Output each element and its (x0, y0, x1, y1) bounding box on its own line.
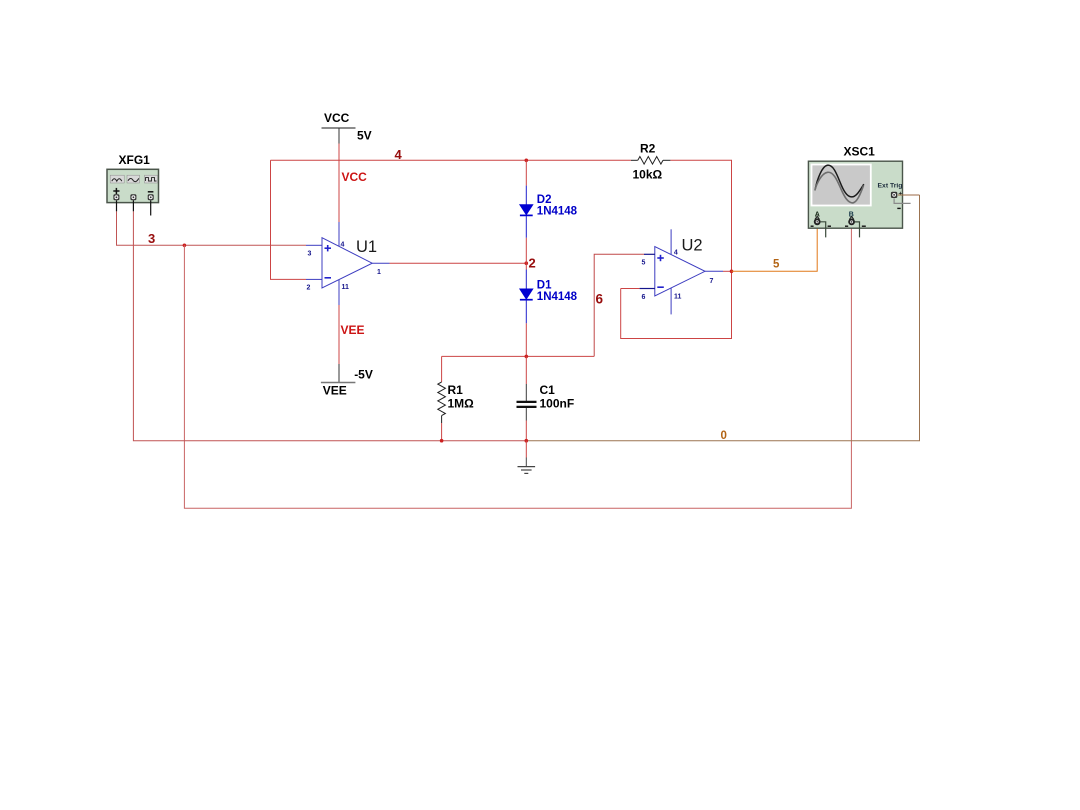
wire node5 orange to scope A (732, 225, 818, 271)
U2 pin11 stub (670, 288, 672, 314)
wire D2 branch red top (525, 160, 527, 185)
svg-text:4: 4 (674, 250, 678, 257)
wire node6 horizontal R1 C1 (442, 355, 595, 357)
diode D2 (520, 205, 533, 216)
svg-text:2: 2 (307, 285, 311, 292)
wire VCC to U1 pin4 (338, 144, 340, 223)
wire node3 branch down to bottom and up to scope B (184, 225, 851, 508)
ground (518, 458, 536, 474)
svg-text:1MΩ: 1MΩ (448, 397, 475, 411)
svg-text:10kΩ: 10kΩ (633, 168, 663, 182)
XPG1 plus pin stub (116, 200, 118, 211)
svg-text:6: 6 (642, 294, 646, 301)
U1 pin11 stub (338, 280, 340, 305)
U2 pin5 stub (644, 253, 655, 255)
U2 pin4 stub (670, 229, 672, 254)
capacitor C1 (517, 356, 537, 440)
svg-text:1N4148: 1N4148 (537, 206, 578, 218)
svg-text:6: 6 (596, 292, 604, 307)
wire node3 from XPG1 plus down and right to U1 pin3 (117, 211, 307, 245)
svg-text:VCC: VCC (324, 111, 350, 125)
resistor R2 (631, 157, 670, 165)
wire U1 output node2 (390, 262, 527, 264)
svg-text:Ext Trig: Ext Trig (878, 183, 903, 190)
wire D1 cathode to node6 red (525, 323, 527, 356)
svg-text:2: 2 (529, 256, 536, 271)
svg-text:1: 1 (377, 269, 381, 276)
svg-text:4: 4 (341, 242, 345, 249)
U2 pin7 stub (705, 270, 723, 272)
svg-text:3: 3 (148, 231, 155, 246)
wire D2 blue lead upper (525, 186, 527, 205)
wire U1 pin11 to VEE (338, 305, 340, 364)
wire U2 pin6 red (621, 288, 640, 290)
wire D2 blue lead lower (525, 216, 527, 238)
junction node6 (525, 355, 529, 359)
XPG1 common pin stub (132, 200, 134, 211)
wire D2 to node2 red (525, 238, 527, 263)
svg-text:R2: R2 (640, 142, 656, 156)
U1 pin4 stub (338, 222, 340, 246)
wire node0 red from XPG1 CMN down and right to C1 junction (133, 211, 526, 440)
svg-text:XFG1: XFG1 (119, 153, 151, 167)
wire node4 feedback horizontal (271, 159, 632, 161)
svg-text:R1: R1 (448, 383, 464, 397)
svg-text:+: + (898, 191, 902, 198)
op-amp U1 (322, 238, 372, 288)
svg-text:C1: C1 (540, 383, 556, 397)
diode D1 (520, 289, 533, 300)
wire D1 blue lead upper (525, 270, 527, 290)
VEE power symbol (321, 364, 356, 383)
junction node4 at D2 (525, 159, 529, 163)
U1 pin1 stub (372, 262, 389, 264)
oscilloscope XSC1 (808, 161, 910, 237)
wire node4 left corner down to U1 pin2 (271, 160, 307, 279)
svg-text:1N4148: 1N4148 (537, 291, 578, 303)
svg-text:100nF: 100nF (540, 397, 575, 411)
wire node0 brown from C1 junction to scope ext trig (526, 195, 919, 441)
wire D1 blue lead lower (525, 300, 527, 323)
VCC power symbol (322, 128, 356, 144)
svg-text:5: 5 (773, 259, 780, 271)
XPG1 minus pin stub (150, 200, 152, 215)
svg-text:VEE: VEE (341, 323, 365, 337)
U1 pin2 stub (306, 278, 322, 280)
wire U2 feedback loop (621, 271, 732, 338)
svg-text:U2: U2 (682, 237, 703, 255)
U2 pin6 stub (640, 288, 655, 290)
svg-text:3: 3 (308, 251, 312, 258)
junction node2 (525, 261, 529, 265)
junction on node3 (183, 244, 187, 248)
svg-text:XSC1: XSC1 (844, 145, 876, 159)
svg-text:5: 5 (642, 260, 646, 267)
svg-text:-5V: -5V (354, 368, 373, 382)
function generator XPG1 (107, 169, 159, 202)
wire U2 output red (723, 270, 732, 272)
junction U2 output (730, 270, 734, 274)
wire node4 right of R2 to corner down to U2 output (670, 160, 731, 271)
svg-text:U1: U1 (356, 238, 377, 256)
wire node6 riser to U2 pin5 (594, 254, 644, 356)
svg-text:11: 11 (342, 284, 350, 291)
svg-text:4: 4 (395, 147, 403, 162)
svg-text:VCC: VCC (342, 170, 368, 184)
svg-text:VEE: VEE (323, 384, 347, 398)
svg-text:5V: 5V (357, 129, 372, 143)
svg-text:0: 0 (721, 430, 727, 442)
svg-text:7: 7 (710, 278, 714, 285)
resistor R1 (438, 356, 446, 440)
wire node2 to D1 red (525, 263, 527, 269)
op-amp U2 (655, 247, 705, 296)
svg-text:D1: D1 (537, 280, 552, 292)
wire C1 bottom to ground (525, 441, 527, 458)
junction R1 bottom (440, 439, 444, 443)
U1 pin3 stub (306, 244, 322, 246)
svg-text:D2: D2 (537, 194, 552, 206)
XSC1 ext trig wire stub brown (898, 194, 920, 196)
svg-text:11: 11 (674, 294, 682, 301)
junction C1 bottom (525, 439, 529, 443)
